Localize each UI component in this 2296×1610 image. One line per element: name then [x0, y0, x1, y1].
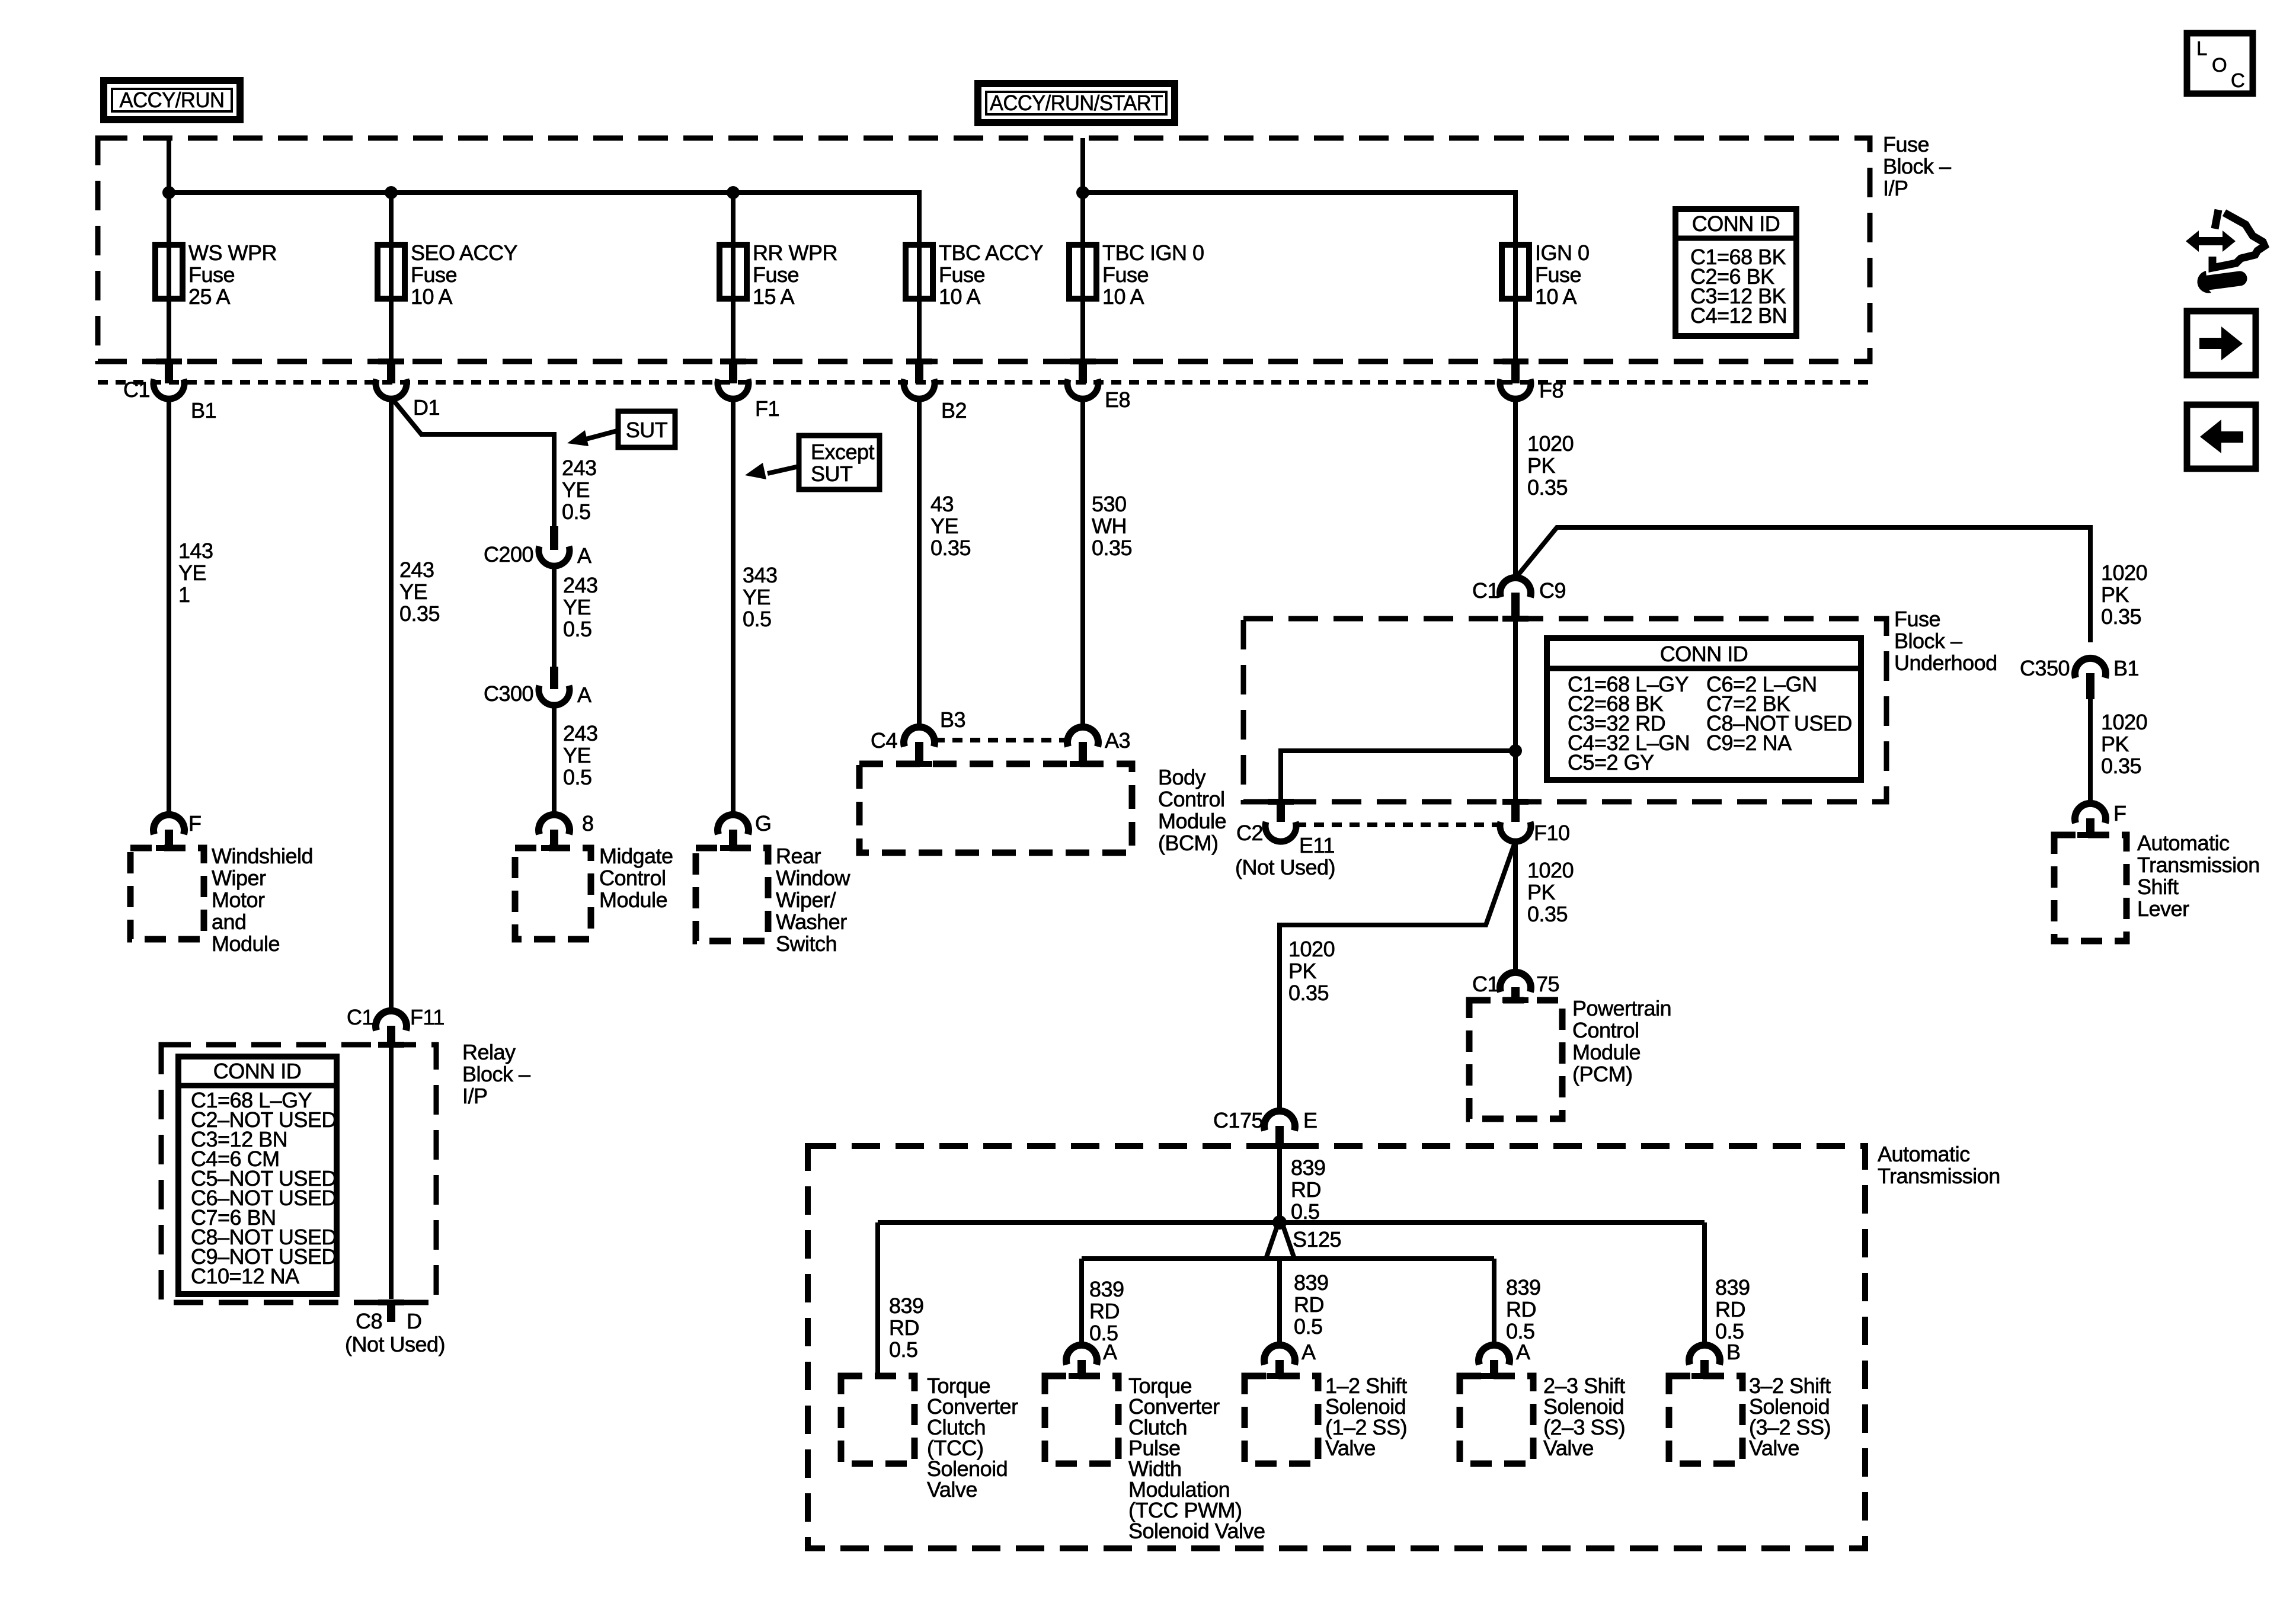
- svg-text:Valve: Valve: [1543, 1436, 1594, 1460]
- svg-text:YE: YE: [930, 514, 958, 538]
- junction dot: [1509, 744, 1522, 757]
- wire 839 RD 0.5: [1277, 1149, 1282, 1222]
- svg-text:YE: YE: [563, 743, 591, 767]
- module powertrain control module PCM: [1469, 1000, 1562, 1119]
- svg-text:F11: F11: [410, 1005, 445, 1029]
- wire bus drop WS WPR: [167, 193, 171, 245]
- svg-text:Rear: Rear: [776, 844, 821, 868]
- svg-text:RD: RD: [1089, 1299, 1120, 1323]
- connector fuse block I/P output E8: [1067, 299, 1098, 399]
- svg-text:PK: PK: [1527, 453, 1556, 478]
- svg-text:(Not Used): (Not Used): [345, 1332, 445, 1356]
- label box SUT: [618, 411, 675, 447]
- connector F10 underhood: [1500, 799, 1531, 841]
- wire label 43 YE 0.35: [930, 492, 971, 560]
- svg-text:L: L: [2196, 37, 2207, 59]
- svg-text:243: 243: [562, 456, 597, 480]
- wire 1020 PK 0.35 to PCM: [1513, 842, 1518, 972]
- svg-text:1020: 1020: [2101, 561, 2147, 585]
- svg-text:B: B: [1726, 1340, 1741, 1364]
- svg-text:(Not Used): (Not Used): [1235, 855, 1335, 879]
- connector C4 BCM: [904, 727, 935, 767]
- svg-text:I/P: I/P: [462, 1084, 488, 1108]
- fuse TBC ACCY 10A: [906, 241, 1044, 309]
- svg-text:Fuse: Fuse: [1102, 263, 1149, 287]
- connector F shift lever: [2075, 804, 2106, 838]
- svg-text:Midgate: Midgate: [599, 844, 673, 868]
- svg-text:C4: C4: [871, 728, 897, 753]
- label automatic transmission: [1878, 1142, 2000, 1188]
- svg-text:Automatic: Automatic: [1878, 1142, 1970, 1166]
- wire 43 YE 0.35: [917, 399, 922, 726]
- svg-text:C: C: [2231, 69, 2244, 91]
- svg-text:C1: C1: [347, 1005, 373, 1029]
- svg-text:0.5: 0.5: [743, 607, 772, 631]
- svg-text:0.35: 0.35: [1288, 981, 1329, 1005]
- svg-text:B1: B1: [191, 398, 216, 422]
- svg-text:SUT: SUT: [811, 462, 853, 486]
- svg-text:Wiper: Wiper: [212, 866, 266, 890]
- label box Except SUT: [799, 436, 880, 489]
- wire 243 YE 0.5: [552, 706, 557, 814]
- connector C300: [539, 667, 570, 705]
- connector C1/C9 underhood fuse block: [1500, 578, 1531, 622]
- wire 243 YE 0.35: [389, 399, 394, 1010]
- icon arrow next page: [2187, 311, 2256, 375]
- power feed label ACCY/RUN/START: [978, 84, 1175, 123]
- svg-text:Module: Module: [599, 888, 667, 912]
- connector A3 BCM: [1067, 727, 1098, 767]
- svg-text:Shift: Shift: [2137, 875, 2179, 899]
- svg-text:839: 839: [1089, 1277, 1124, 1301]
- label midgate control module: [599, 844, 673, 912]
- wire 143 YE 1: [167, 399, 171, 814]
- svg-text:Module: Module: [1572, 1040, 1641, 1064]
- svg-text:Relay: Relay: [462, 1040, 516, 1064]
- wire label 1020 PK 0.35: [1527, 431, 1574, 500]
- wire label 143 YE 1: [178, 539, 213, 607]
- connector C350/B1: [2075, 658, 2106, 699]
- svg-text:1020: 1020: [1288, 937, 1335, 961]
- svg-text:RD: RD: [889, 1315, 919, 1340]
- wire label 839 RD 0.5: [889, 1294, 924, 1362]
- svg-text:839: 839: [1715, 1275, 1750, 1299]
- svg-text:YE: YE: [178, 561, 206, 585]
- svg-text:CONN ID: CONN ID: [1660, 642, 1748, 666]
- connector F windshield wiper motor: [154, 815, 184, 851]
- label 3-2 shift solenoid valve: [1749, 1374, 1831, 1460]
- svg-text:C175: C175: [1213, 1108, 1263, 1132]
- svg-text:343: 343: [743, 563, 778, 587]
- label relay block I/P: [462, 1040, 530, 1108]
- svg-text:TBC ACCY: TBC ACCY: [939, 241, 1044, 265]
- svg-text:0.5: 0.5: [1291, 1199, 1320, 1224]
- connector fuse block I/P output B1: [154, 299, 184, 399]
- svg-text:Valve: Valve: [1325, 1436, 1376, 1460]
- svg-text:RD: RD: [1506, 1297, 1536, 1321]
- svg-text:243: 243: [563, 573, 598, 597]
- connector G rear window wiper washer switch: [718, 815, 749, 851]
- svg-text:A3: A3: [1105, 728, 1130, 753]
- svg-text:RD: RD: [1715, 1297, 1745, 1321]
- svg-text:Solenoid Valve: Solenoid Valve: [1128, 1519, 1265, 1543]
- svg-text:0.35: 0.35: [930, 536, 971, 560]
- svg-text:Wiper/: Wiper/: [776, 888, 836, 912]
- svg-text:839: 839: [1506, 1275, 1541, 1299]
- junction dot: [385, 186, 398, 199]
- svg-text:0.35: 0.35: [2101, 604, 2141, 629]
- svg-text:SEO ACCY: SEO ACCY: [411, 241, 518, 265]
- wire S125 bus upper: [878, 1220, 1705, 1225]
- svg-text:(BCM): (BCM): [1158, 831, 1218, 855]
- wire label 1020 PK 0.35: [2101, 561, 2147, 629]
- svg-text:C10=12 NA: C10=12 NA: [191, 1264, 299, 1288]
- connector C2/E11 not used: [1265, 799, 1296, 841]
- svg-text:Switch: Switch: [776, 932, 837, 956]
- svg-text:(PCM): (PCM): [1572, 1062, 1632, 1086]
- module rear window wiper washer switch: [696, 848, 768, 941]
- label rear window wiper washer switch: [776, 844, 851, 956]
- svg-text:839: 839: [1291, 1156, 1326, 1180]
- wire branch to C2: [1281, 751, 1515, 801]
- fuse IGN 0 10A: [1502, 241, 1590, 309]
- svg-text:530: 530: [1092, 492, 1127, 516]
- relay block I/P dashed outline: [161, 1045, 436, 1302]
- svg-text:RD: RD: [1294, 1292, 1324, 1317]
- svg-text:0.35: 0.35: [1527, 475, 1568, 500]
- svg-text:Module: Module: [212, 932, 280, 956]
- label fuse block underhood: [1894, 607, 1997, 675]
- wire 530 WH 0.35: [1080, 399, 1085, 726]
- svg-text:E8: E8: [1105, 388, 1130, 412]
- svg-text:Fuse: Fuse: [1883, 132, 1929, 156]
- svg-text:YE: YE: [743, 585, 770, 609]
- svg-text:10 A: 10 A: [411, 284, 453, 309]
- svg-text:I/P: I/P: [1883, 176, 1908, 200]
- svg-text:YE: YE: [399, 580, 427, 604]
- icon vehicle harness with wrench: [2186, 210, 2265, 293]
- fuse TBC IGN 0 10A: [1069, 241, 1204, 309]
- CONN ID table relay block: [178, 1057, 337, 1294]
- junction dot: [727, 186, 740, 199]
- svg-text:F8: F8: [1539, 378, 1563, 402]
- svg-text:Fuse: Fuse: [1535, 263, 1581, 287]
- svg-text:E11: E11: [1299, 833, 1335, 857]
- module 3-2 shift solenoid valve: [1669, 1376, 1742, 1464]
- svg-text:Block –: Block –: [462, 1062, 530, 1086]
- svg-text:IGN 0: IGN 0: [1535, 241, 1590, 265]
- wire label 243 YE 0.5: [563, 573, 598, 641]
- label 1-2 shift solenoid valve: [1325, 1374, 1407, 1460]
- wire bus drop RR WPR: [731, 193, 736, 245]
- svg-text:D: D: [407, 1309, 422, 1333]
- svg-text:1020: 1020: [1527, 431, 1574, 456]
- connector fuse block I/P output D1: [376, 299, 407, 399]
- svg-text:43: 43: [930, 492, 954, 516]
- connector 8 midgate control module: [539, 815, 570, 851]
- wire label 839 RD 0.5: [1089, 1277, 1124, 1345]
- wire bus drop TBC IGN 0: [1080, 193, 1085, 245]
- svg-text:F1: F1: [755, 396, 779, 421]
- svg-text:CONN ID: CONN ID: [1692, 212, 1780, 236]
- svg-text:WH: WH: [1092, 514, 1127, 538]
- junction dot: [1076, 186, 1089, 199]
- svg-text:B1: B1: [2113, 656, 2139, 680]
- connector C1/F11 relay block: [376, 1011, 407, 1048]
- svg-text:0.35: 0.35: [399, 601, 440, 626]
- svg-text:1020: 1020: [2101, 710, 2147, 734]
- wire label 839 RD 0.5: [1506, 1275, 1541, 1343]
- svg-text:C300: C300: [484, 681, 533, 706]
- svg-text:Fuse: Fuse: [188, 263, 235, 287]
- wire ACCY/RUN feed: [167, 138, 171, 193]
- dotted connector face line underhood: [1296, 822, 1500, 827]
- svg-text:839: 839: [1294, 1270, 1329, 1295]
- module 2-3 shift solenoid valve: [1460, 1376, 1533, 1464]
- wire label 243 YE 0.5: [563, 721, 598, 789]
- module 1-2 shift solenoid valve: [1245, 1376, 1318, 1464]
- svg-text:WS WPR: WS WPR: [188, 241, 277, 265]
- svg-text:0.35: 0.35: [2101, 754, 2141, 778]
- svg-text:A: A: [577, 683, 591, 707]
- svg-text:C1: C1: [1472, 972, 1499, 996]
- connector fuse block I/P output F8: [1500, 299, 1531, 399]
- svg-text:SUT: SUT: [626, 418, 668, 442]
- svg-text:Powertrain: Powertrain: [1572, 996, 1671, 1020]
- svg-text:Block –: Block –: [1894, 629, 1962, 653]
- wire splice diagonal left: [1266, 1226, 1277, 1259]
- svg-text:C9: C9: [1539, 578, 1566, 603]
- svg-text:PK: PK: [1527, 880, 1556, 904]
- label TCC PWM solenoid valve: [1128, 1374, 1265, 1543]
- svg-text:Block –: Block –: [1883, 154, 1951, 178]
- svg-text:Body: Body: [1158, 765, 1206, 789]
- connector A TCC PWM solenoid: [1066, 1345, 1097, 1379]
- svg-text:Lever: Lever: [2137, 897, 2189, 921]
- module windshield wiper motor and module: [130, 848, 204, 939]
- svg-text:G: G: [755, 811, 772, 836]
- svg-text:RR WPR: RR WPR: [753, 241, 837, 265]
- svg-text:PK: PK: [2101, 732, 2129, 756]
- svg-text:143: 143: [178, 539, 213, 563]
- wire ACCY/RUN/START feed: [1080, 138, 1085, 193]
- CONN ID table underhood: [1547, 638, 1861, 780]
- svg-text:YE: YE: [562, 478, 590, 502]
- wire 839 RD 0.5 2-3 drop: [1492, 1259, 1496, 1345]
- label body control module: [1158, 765, 1226, 855]
- wire inside underhood block: [1513, 619, 1518, 801]
- module automatic transmission shift lever: [2054, 835, 2126, 941]
- arrow SUT: [567, 430, 619, 446]
- label TCC solenoid valve: [927, 1374, 1018, 1502]
- connector C1/75 PCM: [1500, 972, 1531, 1003]
- svg-text:C9=2 NA: C9=2 NA: [1706, 731, 1792, 755]
- svg-text:A: A: [577, 543, 591, 568]
- dotted connector face line fuse block I/P: [98, 380, 1870, 385]
- wire 839 RD 0.5 TCC drop: [875, 1222, 880, 1376]
- svg-text:C4=12 BN: C4=12 BN: [1690, 303, 1787, 328]
- wire left bus: [169, 193, 919, 245]
- connector fuse block I/P output F1: [718, 299, 749, 399]
- svg-text:C5=2 GY: C5=2 GY: [1568, 750, 1654, 774]
- label automatic transmission shift lever: [2137, 831, 2260, 921]
- wire label 1020 PK 0.35: [2101, 710, 2147, 778]
- svg-text:10 A: 10 A: [1102, 284, 1144, 309]
- module body control module BCM: [859, 764, 1132, 853]
- svg-text:C1: C1: [123, 377, 150, 402]
- wire bus drop SEO ACCY: [389, 193, 394, 245]
- wire right bus: [1083, 193, 1515, 245]
- svg-text:YE: YE: [563, 595, 591, 619]
- connector C200: [539, 526, 570, 566]
- svg-text:TBC IGN 0: TBC IGN 0: [1102, 241, 1204, 265]
- svg-text:Underhood: Underhood: [1894, 651, 1997, 675]
- svg-text:C350: C350: [2020, 656, 2070, 680]
- svg-text:F: F: [188, 811, 202, 836]
- svg-text:10 A: 10 A: [1535, 284, 1577, 309]
- svg-text:Valve: Valve: [927, 1477, 977, 1502]
- wire label 839 RD 0.5: [1715, 1275, 1750, 1343]
- svg-text:Automatic: Automatic: [2137, 831, 2230, 855]
- fuse RR WPR 15A: [720, 241, 837, 309]
- wire 839 RD 0.5 3-2 drop: [1702, 1222, 1707, 1345]
- svg-text:F: F: [2113, 801, 2126, 825]
- svg-text:Transmission: Transmission: [2137, 853, 2260, 877]
- svg-text:E: E: [1303, 1108, 1318, 1132]
- svg-text:C2: C2: [1236, 821, 1263, 845]
- svg-text:B2: B2: [941, 398, 967, 422]
- CONN ID table fuse block I/P: [1675, 209, 1796, 336]
- svg-text:C1: C1: [1472, 578, 1499, 603]
- svg-text:25 A: 25 A: [188, 284, 231, 309]
- fuse block I/P dashed outline: [98, 138, 1870, 361]
- svg-text:Valve: Valve: [1749, 1436, 1799, 1460]
- connector fuse block I/P output B2: [904, 299, 935, 399]
- wire label 343 YE 0.5: [743, 563, 778, 631]
- svg-text:Except: Except: [811, 440, 875, 464]
- svg-text:PK: PK: [1288, 959, 1317, 983]
- connector B 3-2 shift solenoid: [1689, 1345, 1720, 1379]
- svg-text:75: 75: [1536, 972, 1559, 996]
- connector A 1-2 shift solenoid: [1264, 1345, 1295, 1379]
- svg-text:0.35: 0.35: [1527, 902, 1568, 926]
- wire label 839 RD 0.5: [1291, 1156, 1326, 1224]
- svg-text:CONN ID: CONN ID: [213, 1059, 302, 1083]
- svg-text:Control: Control: [1572, 1018, 1639, 1042]
- wire S125 bus lower: [1082, 1256, 1494, 1261]
- connector C8/D not used: [378, 1299, 404, 1322]
- svg-text:B3: B3: [940, 708, 965, 732]
- svg-text:D1: D1: [413, 395, 440, 420]
- svg-text:8: 8: [582, 811, 594, 836]
- svg-text:Control: Control: [1158, 787, 1225, 811]
- svg-text:0.5: 0.5: [1294, 1314, 1323, 1339]
- svg-text:Washer: Washer: [776, 910, 847, 934]
- wire branch to C350: [1517, 527, 2090, 642]
- svg-text:Fuse: Fuse: [753, 263, 799, 287]
- fuse block underhood dashed outline: [1243, 619, 1886, 802]
- svg-text:Motor: Motor: [212, 888, 265, 912]
- svg-text:RD: RD: [1291, 1177, 1321, 1202]
- wire splice diagonal right: [1283, 1226, 1294, 1259]
- svg-text:Window: Window: [776, 866, 851, 890]
- wire through relay block: [389, 1048, 394, 1299]
- svg-text:1: 1: [178, 582, 190, 607]
- icon arrow previous page: [2187, 405, 2256, 469]
- wire label 1020 PK 0.35: [1527, 858, 1574, 926]
- svg-text:Transmission: Transmission: [1878, 1164, 2000, 1188]
- svg-text:S125: S125: [1293, 1227, 1341, 1251]
- svg-text:A: A: [1516, 1340, 1530, 1364]
- svg-text:ACCY/RUN/START: ACCY/RUN/START: [990, 91, 1163, 115]
- wire label 243 YE 0.5: [562, 456, 597, 524]
- wire label 243 YE 0.35: [399, 558, 440, 626]
- svg-text:15 A: 15 A: [753, 284, 795, 309]
- svg-text:Fuse: Fuse: [411, 263, 457, 287]
- label Fuse Block I/P: [1883, 132, 1951, 200]
- svg-text:PK: PK: [2101, 582, 2129, 607]
- svg-text:and: and: [212, 910, 247, 934]
- label 2-3 shift solenoid valve: [1543, 1374, 1625, 1460]
- module midgate control module: [515, 848, 591, 939]
- wire label 1020 PK 0.35: [1288, 937, 1335, 1005]
- wire 839 RD 0.5 TCC PWM drop: [1079, 1259, 1084, 1345]
- wire label 839 RD 0.5: [1294, 1270, 1329, 1339]
- wire 243 YE 0.5: [552, 566, 557, 667]
- svg-text:O: O: [2212, 54, 2227, 76]
- svg-text:0.5: 0.5: [563, 765, 592, 789]
- svg-text:1020: 1020: [1527, 858, 1574, 882]
- svg-text:Fuse: Fuse: [939, 263, 985, 287]
- svg-text:ACCY/RUN: ACCY/RUN: [120, 88, 225, 112]
- wire SUT branch diagonal: [392, 398, 554, 526]
- label windshield wiper motor and module: [212, 844, 313, 956]
- splice S125: [1272, 1215, 1287, 1230]
- connector A 2-3 shift solenoid: [1479, 1345, 1510, 1379]
- svg-text:A: A: [1103, 1340, 1117, 1364]
- power feed label ACCY/RUN: [104, 81, 240, 120]
- automatic transmission dashed outline: [808, 1146, 1865, 1548]
- wire 1020 PK 0.35 to shift lever: [2088, 699, 2093, 803]
- wire 343 YE 0.5: [731, 399, 736, 814]
- svg-text:839: 839: [889, 1294, 924, 1318]
- svg-text:Module: Module: [1158, 809, 1226, 833]
- wire label 530 WH 0.35: [1092, 492, 1132, 560]
- label powertrain control module: [1572, 996, 1671, 1086]
- svg-text:243: 243: [399, 558, 434, 582]
- svg-text:Fuse: Fuse: [1894, 607, 1940, 631]
- svg-text:243: 243: [563, 721, 598, 745]
- fuse WS WPR 25A: [155, 241, 277, 309]
- icon LOC box: [2187, 33, 2253, 94]
- svg-text:0.5: 0.5: [563, 617, 592, 641]
- svg-text:A: A: [1302, 1340, 1316, 1364]
- svg-text:Control: Control: [599, 866, 666, 890]
- svg-text:0.5: 0.5: [562, 500, 591, 524]
- svg-text:F10: F10: [1534, 821, 1570, 845]
- svg-text:10 A: 10 A: [939, 284, 981, 309]
- wire 839 RD 0.5 1-2 drop: [1277, 1259, 1282, 1345]
- wire branch to C175: [1280, 844, 1514, 1110]
- junction dot: [162, 186, 175, 199]
- svg-text:C200: C200: [484, 542, 533, 566]
- fuse SEO ACCY 10A: [378, 241, 518, 309]
- svg-text:0.35: 0.35: [1092, 536, 1132, 560]
- module TCC solenoid valve: [841, 1376, 914, 1464]
- connector C175/E automatic transmission: [1264, 1111, 1295, 1149]
- arrow Except SUT: [745, 463, 799, 479]
- module TCC PWM solenoid valve: [1045, 1376, 1118, 1464]
